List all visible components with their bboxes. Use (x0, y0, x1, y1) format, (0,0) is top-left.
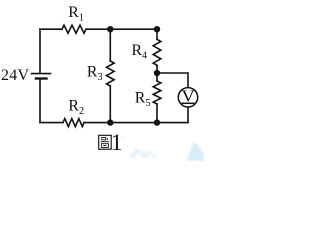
node bottom R5 (154, 119, 160, 125)
node top R4 (154, 26, 160, 32)
wire top: left corner to R1 (40, 28, 62, 30)
wire bottom: left corner to R2 (40, 122, 63, 124)
node A (between R4 and R5) (154, 70, 160, 76)
battery 24V top plate (32, 73, 51, 75)
svg-text:R3: R3 (87, 63, 103, 83)
wire R4 to node A (156, 65, 158, 81)
resistor R5 (153, 81, 161, 104)
node top R3 (107, 26, 113, 32)
resistor R3 (107, 61, 115, 86)
wire R3 upper (109, 29, 111, 61)
圖 glyph top-right tick (106, 138, 108, 140)
圖 glyph outer box (99, 135, 112, 149)
wire voltmeter bottom (187, 108, 189, 123)
圖 glyph middle bar (101, 141, 110, 143)
wire R3 lower (109, 86, 111, 123)
圖 glyph bottom box (101, 144, 108, 148)
svg-text:R4: R4 (132, 42, 148, 62)
caption 圖1 (99, 135, 112, 149)
wire R4 upper (156, 29, 158, 39)
wire left upper (39, 29, 41, 73)
resistor R1 (62, 25, 86, 33)
svg-text:1: 1 (111, 130, 123, 156)
圖 glyph bottom inner (103, 145, 106, 147)
node bottom R3 (107, 119, 113, 125)
svg-text:R1: R1 (68, 4, 84, 24)
wire bottom: R2 to right corner (84, 122, 188, 124)
svg-text:R5: R5 (135, 90, 151, 110)
wire node A to voltmeter top (157, 73, 188, 87)
svg-text:R2: R2 (68, 97, 84, 117)
wire left lower (39, 79, 41, 123)
resistor R4 (153, 39, 161, 65)
voltmeter V circle (178, 88, 197, 107)
resistor R2 (63, 119, 84, 127)
node junction dots (107, 26, 160, 126)
wire top: R1 to node B (86, 28, 157, 30)
battery 24V bottom plate (36, 77, 47, 79)
圖 glyph top small box (102, 137, 106, 140)
svg-text:24V: 24V (1, 67, 30, 84)
wire R5 lower (156, 104, 158, 123)
voltmeter V underline (182, 102, 195, 104)
